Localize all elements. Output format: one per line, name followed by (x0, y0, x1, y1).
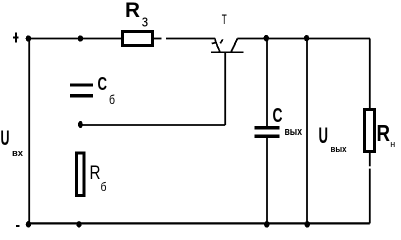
wire Cvyh branch upper (266, 39, 268, 127)
junction node top-left corner (26, 35, 31, 41)
transistor T (211, 39, 244, 53)
wire top rail to transistor emitter (166, 38, 215, 40)
svg-text:вых: вых (331, 144, 348, 155)
resistor Rb (77, 153, 85, 196)
junction node output bottom (305, 221, 310, 227)
svg-text:вх: вх (12, 148, 23, 158)
svg-text:U: U (319, 123, 329, 148)
resistor Rn (365, 110, 375, 152)
capacitor Cb plate bottom (70, 94, 93, 97)
minus terminal symbol (16, 225, 20, 227)
capacitor Cb plate top (70, 83, 93, 86)
svg-text:б: б (109, 92, 115, 107)
svg-text:U: U (1, 127, 10, 150)
junction node Rb bottom (76, 221, 81, 227)
capacitor Cvyh plate bottom (255, 135, 280, 138)
plus terminal symbol (13, 33, 19, 43)
svg-text:вых: вых (285, 126, 303, 138)
wire Cvyh branch lower (266, 138, 268, 224)
junction node Cvyh top (264, 35, 269, 41)
capacitor Cvyh plate top (255, 126, 280, 129)
junction node Cb top (78, 35, 83, 41)
svg-text:б: б (101, 180, 107, 194)
wire top rail left segment (28, 38, 121, 40)
wire right branch lower (369, 152, 371, 166)
wire base horizontal (80, 124, 225, 126)
junction node Cvyh bottom (264, 221, 269, 227)
svg-text:C: C (98, 74, 108, 94)
svg-text:R: R (125, 0, 140, 22)
wire right branch upper (369, 39, 371, 110)
resistor Rz (123, 32, 153, 46)
junction node bottom-left corner (26, 221, 31, 227)
svg-text:C: C (273, 105, 283, 127)
svg-text:T: T (222, 12, 227, 27)
svg-text:R: R (377, 120, 391, 146)
wire left rail (28, 39, 30, 225)
svg-text:R: R (90, 163, 101, 184)
wire top rail collector to right corner (237, 38, 370, 40)
wire top rail after Rz with small gap (154, 38, 162, 40)
svg-text:н: н (390, 139, 395, 149)
wire base vertical (224, 52, 226, 125)
junction node output top (304, 35, 309, 41)
wire bottom rail (29, 222, 370, 224)
svg-text:з: з (142, 12, 149, 31)
junction node base wire left end (78, 121, 83, 128)
wire output port line (306, 39, 308, 224)
